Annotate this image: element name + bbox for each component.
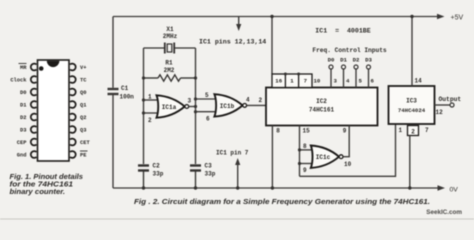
crystal X1 2MHz <box>144 43 196 54</box>
svg-text:9: 9 <box>303 167 307 174</box>
svg-text:IC1 pins 12,13,14: IC1 pins 12,13,14 <box>199 39 266 46</box>
svg-text:33p: 33p <box>153 171 164 178</box>
svg-text:IC1 = 4001BE: IC1 = 4001BE <box>315 28 370 35</box>
svg-text:IC3: IC3 <box>406 98 417 105</box>
svg-text:10: 10 <box>344 161 352 168</box>
pin 1 dot <box>39 66 44 71</box>
svg-text:D0: D0 <box>328 57 335 64</box>
svg-text:2MHz: 2MHz <box>163 33 178 40</box>
svg-text:D2: D2 <box>20 115 26 121</box>
notch <box>47 61 60 67</box>
wire IC3 pin 14 to +5V rail <box>411 17 413 87</box>
Fig 1 caption <box>10 172 83 196</box>
svg-text:V+: V+ <box>80 65 86 71</box>
svg-text:Q1: Q1 <box>80 103 86 109</box>
svg-text:74HC161: 74HC161 <box>309 107 335 114</box>
svg-text:3: 3 <box>334 77 338 84</box>
svg-text:C2: C2 <box>153 163 161 170</box>
svg-text:CET: CET <box>80 140 90 146</box>
pin box 2 under IC3 to ground <box>408 126 419 190</box>
capacitor C3 33p <box>190 166 201 189</box>
wire IC2 pin 9 down <box>348 126 350 157</box>
svg-text:D3: D3 <box>365 57 372 64</box>
wire TC loop to IC3 clock pin 1 <box>300 124 396 176</box>
resistor R1 2M2 <box>144 75 196 81</box>
svg-text:Output: Output <box>439 96 462 103</box>
pin number labels 3 4 5 6 <box>334 77 375 84</box>
svg-text:+5V: +5V <box>451 14 464 21</box>
wire IC2 pin 15 down <box>299 126 301 177</box>
DIP left pins <box>31 64 37 158</box>
svg-text:Q0: Q0 <box>80 90 86 96</box>
ground junction dots <box>142 186 145 189</box>
svg-text:74HC4024: 74HC4024 <box>398 107 426 114</box>
svg-text:SeekIC.com: SeekIC.com <box>426 209 462 216</box>
svg-text:IC2: IC2 <box>316 98 327 105</box>
svg-text:14: 14 <box>415 78 423 85</box>
capacitor C1 100n (decoupling) <box>108 17 119 189</box>
svg-text:6: 6 <box>206 116 210 123</box>
svg-text:2: 2 <box>411 129 415 136</box>
label IC1 pins 12,13,14 with arrow from +5V rail <box>199 17 266 46</box>
svg-text:1: 1 <box>399 127 403 134</box>
svg-text:5: 5 <box>359 77 363 84</box>
PE overline <box>80 150 88 152</box>
svg-text:IC1c: IC1c <box>316 154 331 161</box>
op-amp gate IC1a (NOR) <box>144 94 196 125</box>
wire V+ drop to pin strip <box>271 17 273 75</box>
node Output pin 12 <box>435 96 462 116</box>
svg-text:2M2: 2M2 <box>164 67 175 74</box>
svg-text:Freq. Control Inputs: Freq. Control Inputs <box>312 47 387 54</box>
wire +5V top rail <box>113 16 442 18</box>
svg-text:16: 16 <box>275 77 282 84</box>
svg-text:PE: PE <box>80 153 87 159</box>
svg-text:C3: C3 <box>205 163 213 170</box>
wire IC2 pin 8 to ground <box>271 126 273 189</box>
DIP right pin labels <box>80 65 90 159</box>
svg-text:binary counter.: binary counter. <box>10 187 66 196</box>
freq control input terminals D0-D3 (pins 3,4,5,6) <box>331 69 369 88</box>
svg-text:D2: D2 <box>353 57 360 64</box>
svg-text:8: 8 <box>276 128 280 135</box>
svg-text:D0: D0 <box>20 90 26 96</box>
wire node B vertical (crystal right / IC1a out / IC1b in / C3) <box>195 48 197 164</box>
svg-text:5: 5 <box>205 92 209 99</box>
IC2 74HC161 box <box>266 88 378 126</box>
MR overline <box>19 63 27 65</box>
svg-text:Q3: Q3 <box>80 128 86 134</box>
svg-text:1: 1 <box>148 94 152 101</box>
+5V arrow and label <box>437 14 463 22</box>
op-amp gate IC1b (NOR) <box>196 92 267 123</box>
svg-text:Gnd: Gnd <box>17 153 27 159</box>
svg-text:MR: MR <box>20 65 27 71</box>
svg-text:0V: 0V <box>450 186 459 193</box>
svg-text:1: 1 <box>290 77 294 84</box>
svg-text:D3: D3 <box>20 128 26 134</box>
svg-text:7: 7 <box>304 77 308 84</box>
junction dots node B <box>194 76 197 79</box>
svg-text:3: 3 <box>188 98 192 105</box>
pin strip 16 / 1 / 7 on IC2 top <box>272 73 312 88</box>
svg-text:D1: D1 <box>340 57 347 64</box>
wire 0V bottom rail <box>113 187 442 189</box>
svg-text:Clock: Clock <box>10 78 27 84</box>
DIP-16 package body (Fig 1) <box>38 60 70 161</box>
svg-text:Q2: Q2 <box>80 115 86 121</box>
svg-text:IC1b: IC1b <box>220 103 235 110</box>
svg-text:4: 4 <box>246 97 250 104</box>
0V arrow and label <box>438 185 459 193</box>
svg-text:12: 12 <box>436 109 444 116</box>
label IC1 pin 7 with arrow up from 0V rail <box>216 150 249 189</box>
svg-text:100n: 100n <box>120 94 135 101</box>
IC3 74HC4024 box <box>389 86 435 124</box>
svg-text:TC: TC <box>80 78 87 84</box>
faint scan line at bottom <box>0 218 474 220</box>
svg-text:2: 2 <box>259 97 263 104</box>
svg-text:D1: D1 <box>20 103 26 109</box>
svg-text:8: 8 <box>303 143 307 150</box>
capacitor C2 33p <box>138 166 149 189</box>
svg-text:C1: C1 <box>121 85 129 92</box>
wire node A vertical (crystal left / gate inputs / C2) <box>143 48 145 164</box>
svg-text:4: 4 <box>346 77 350 84</box>
DIP left pin labels <box>10 65 27 159</box>
svg-text:2: 2 <box>148 117 152 124</box>
svg-text:Fig . 2. Circuit diagram for a: Fig . 2. Circuit diagram for a Simple Fr… <box>134 197 430 206</box>
svg-text:IC1a: IC1a <box>162 104 177 111</box>
svg-text:CEP: CEP <box>17 140 27 146</box>
svg-text:10: 10 <box>314 77 321 84</box>
svg-text:33p: 33p <box>205 171 216 178</box>
svg-text:IC1 pin 7: IC1 pin 7 <box>216 150 249 157</box>
svg-text:R1: R1 <box>165 60 173 67</box>
op-amp gate IC1c (NOR) <box>298 143 352 174</box>
svg-text:6: 6 <box>371 77 375 84</box>
svg-text:15: 15 <box>303 128 311 135</box>
svg-text:9: 9 <box>343 128 347 135</box>
junction dots node A <box>142 76 145 79</box>
node labels D0 D1 D2 D3 <box>328 57 373 64</box>
DIP right pins <box>70 64 76 158</box>
svg-text:7: 7 <box>425 127 429 134</box>
